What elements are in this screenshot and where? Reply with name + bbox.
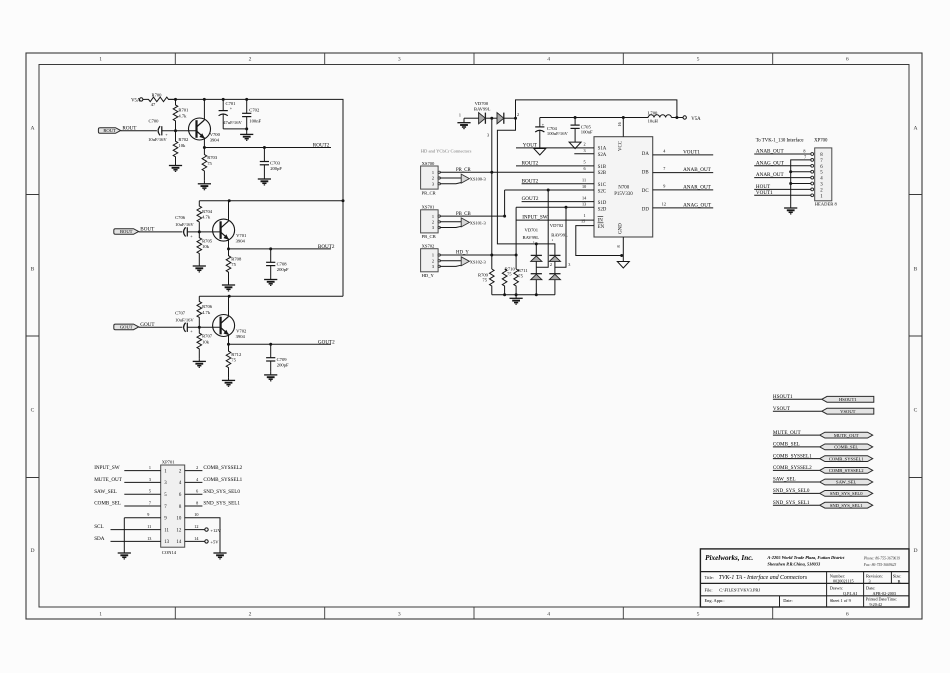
ground clamp bus	[510, 295, 523, 304]
svg-text:12: 12	[662, 201, 666, 206]
wire SND_SYS_SEL1	[773, 504, 820, 506]
wire PR_CR to S2B pin6	[440, 171, 595, 173]
svg-text:APR-02-2003: APR-02-2003	[873, 591, 897, 596]
svg-text:EN: EN	[598, 225, 605, 230]
svg-text:ROUT2: ROUT2	[313, 143, 330, 149]
capacitor C709 200pF	[266, 344, 289, 372]
svg-text:SAW_SEL: SAW_SEL	[773, 477, 796, 483]
svg-text:GND: GND	[619, 223, 624, 234]
svg-text:BOUT2: BOUT2	[318, 244, 335, 250]
junction PB_CB R710	[503, 215, 506, 218]
svg-text:4: 4	[547, 611, 550, 617]
capacitor C704 100uF/16V	[535, 118, 568, 149]
junction C703 tap	[263, 146, 266, 149]
svg-text:VSOUT: VSOUT	[840, 409, 856, 414]
title block text	[705, 554, 902, 607]
svg-text:PR_CR: PR_CR	[422, 190, 437, 195]
junction node base V701	[198, 230, 201, 233]
port BOUT	[114, 229, 139, 235]
svg-text:R702: R702	[178, 137, 189, 142]
shield arrow XS101-3	[461, 218, 469, 227]
diode VD700a	[479, 113, 486, 124]
svg-text:N700: N700	[618, 186, 629, 191]
svg-text:+12V: +12V	[210, 528, 221, 533]
svg-text:COMB_SYSSEL2: COMB_SYSSEL2	[203, 465, 242, 471]
svg-text:CON14: CON14	[162, 550, 177, 555]
svg-text:ANAG_OUT: ANAG_OUT	[756, 160, 785, 166]
wire CON14 pin12 to +12V	[185, 529, 205, 531]
diode VD701a	[531, 255, 542, 261]
wire V701 emitter	[228, 239, 230, 249]
resistor R702 10k	[173, 131, 189, 163]
wire V5A rail circuit3	[199, 295, 343, 297]
svg-text:2: 2	[432, 176, 434, 181]
wire base V700	[176, 130, 197, 132]
svg-text:SND_SYS_SEL0: SND_SYS_SEL0	[830, 491, 863, 496]
svg-text:75: 75	[207, 161, 212, 166]
svg-text:SAW_SEL: SAW_SEL	[94, 489, 117, 495]
svg-text:Phone: 86-755-3679619: Phone: 86-755-3679619	[863, 557, 900, 561]
svg-text:SND_SYS_SEL1: SND_SYS_SEL1	[203, 501, 240, 507]
svg-text:BOUT: BOUT	[120, 229, 133, 234]
svg-text:XP701: XP701	[162, 460, 175, 465]
svg-text:75: 75	[518, 273, 523, 278]
svg-text:BOUT2: BOUT2	[522, 178, 539, 184]
wire termination bus	[492, 294, 555, 296]
wire YOUT to S1A	[516, 147, 594, 149]
svg-text:16: 16	[617, 122, 622, 126]
svg-text:ANAR_OUT: ANAR_OUT	[683, 185, 712, 191]
svg-text:S2B: S2B	[598, 171, 607, 176]
svg-text:75: 75	[507, 272, 512, 277]
svg-text:2: 2	[432, 258, 434, 263]
svg-text:5: 5	[149, 489, 151, 494]
wire CON14 pin10 ground drop	[185, 518, 220, 552]
connector XS701 (PB_CB)	[421, 205, 441, 240]
ground under C708	[264, 277, 277, 286]
ground under C703	[258, 176, 271, 185]
wire CON14 pin8	[185, 505, 203, 507]
wire VD702 mid	[554, 261, 556, 273]
svg-text:4.7k: 4.7k	[202, 310, 211, 315]
capacitor C702 100nF	[242, 99, 261, 128]
connector XS702 (HD_Y)	[421, 244, 441, 279]
svg-text:10k: 10k	[202, 340, 210, 345]
svg-text:VOUT1: VOUT1	[683, 150, 700, 156]
svg-text:R705: R705	[202, 238, 213, 243]
svg-text:5: 5	[697, 57, 700, 63]
wire XS702 pin3	[440, 265, 462, 266]
junction rail C705	[574, 116, 577, 119]
capacitor C705 100nF	[571, 118, 593, 143]
svg-text:S1C: S1C	[598, 183, 606, 188]
diode VD702b	[549, 274, 560, 280]
svg-text:2: 2	[517, 112, 519, 117]
wire ANAB_OUT from IC	[653, 172, 714, 174]
wire XS700 pin2	[440, 177, 462, 179]
wire C701 C702 bottoms	[223, 128, 247, 130]
svg-text:TVK-1 TA - Interface and Conne: TVK-1 TA - Interface and Connectors	[719, 574, 808, 581]
svg-text:ROUT: ROUT	[103, 128, 116, 133]
junction bus pin5	[789, 170, 792, 173]
wire VCC rail	[540, 117, 648, 119]
wire COMB_SEL	[773, 446, 820, 448]
svg-text:C: C	[914, 408, 918, 414]
resistor R711 75	[514, 268, 529, 295]
svg-text:XS101-3: XS101-3	[470, 220, 487, 225]
svg-text:Date:: Date:	[783, 598, 793, 603]
svg-text:6: 6	[846, 57, 849, 63]
junction node base V700	[174, 129, 177, 132]
svg-text:C707: C707	[175, 310, 186, 315]
svg-text:200pF: 200pF	[277, 363, 289, 368]
svg-text:Eng. Appr.:: Eng. Appr.:	[705, 598, 725, 603]
junction S2D clamp	[565, 206, 568, 209]
svg-text:Q.P.LAI: Q.P.LAI	[843, 591, 858, 596]
wire XP700 bus pin5	[791, 171, 811, 173]
resistor R700 47	[146, 93, 176, 108]
port SND_SYS_SEL1	[820, 502, 873, 508]
svg-text:R700: R700	[152, 93, 163, 98]
ground under C702	[240, 129, 253, 140]
wire XS700 pin3	[440, 183, 462, 184]
port VSOUT	[822, 408, 874, 414]
port COMB_SEL	[820, 444, 873, 450]
svg-text:SND_SYS_SEL1: SND_SYS_SEL1	[830, 503, 863, 508]
svg-text:13: 13	[147, 536, 151, 541]
diode VD702a	[549, 255, 560, 261]
svg-text:1: 1	[432, 253, 434, 258]
resistor R704 4.7k	[197, 201, 213, 232]
inner border frame	[39, 65, 909, 608]
svg-text:COMB_SYSSEL1: COMB_SYSSEL1	[203, 477, 242, 483]
svg-text:DC: DC	[642, 189, 649, 194]
svg-text:3: 3	[869, 579, 871, 584]
svg-text:B: B	[898, 579, 901, 584]
svg-text:4: 4	[547, 57, 550, 63]
svg-text:ANAB_OUT: ANAB_OUT	[683, 167, 712, 173]
wire VD701 mid to S2C	[536, 190, 548, 267]
svg-text:2: 2	[432, 220, 434, 225]
svg-text:VD701: VD701	[525, 228, 539, 233]
svg-text:R712: R712	[231, 352, 242, 357]
junction bus VD701	[535, 293, 538, 296]
wire BOUT2 output	[229, 248, 332, 250]
junction node2	[514, 117, 517, 120]
wire XS701 pin2	[440, 221, 462, 223]
port ROUT	[98, 128, 120, 134]
svg-text:1: 1	[584, 213, 586, 218]
power terminal +12V	[205, 528, 208, 531]
capacitor C700 10uF/16V	[121, 118, 176, 141]
wire node2 up-over to V5A	[516, 100, 677, 118]
ground under R707	[193, 358, 206, 367]
svg-text:GOUT2: GOUT2	[318, 339, 335, 345]
svg-text:INPUT_SW: INPUT_SW	[522, 215, 548, 221]
wire CON14 pin13	[111, 540, 161, 542]
svg-text:47uF/16V: 47uF/16V	[223, 120, 242, 125]
svg-text:1: 1	[99, 611, 102, 617]
svg-text:COMB_SYSSEL1: COMB_SYSSEL1	[773, 453, 812, 459]
wire VD701 bottom lead	[535, 280, 537, 295]
svg-text:100nF: 100nF	[249, 118, 261, 123]
junction emitter node 3	[227, 343, 230, 346]
svg-text:HEADER 8: HEADER 8	[815, 202, 838, 207]
svg-text:7: 7	[149, 500, 151, 505]
svg-text:11: 11	[164, 528, 169, 533]
svg-text:10k: 10k	[178, 143, 186, 148]
wire ROUT2 output	[204, 147, 331, 149]
ground under R702	[169, 163, 182, 172]
wire V5A to R700	[143, 98, 146, 100]
port COMB_SYSSEL2	[820, 468, 873, 474]
svg-text:L700: L700	[648, 111, 658, 116]
junction rail C702	[245, 98, 248, 101]
port HSOUT1	[822, 396, 874, 402]
svg-text:BAV99L: BAV99L	[474, 106, 491, 111]
ground under R703	[198, 181, 211, 190]
svg-text:6: 6	[196, 489, 198, 494]
transistor V700 3904	[189, 118, 221, 143]
svg-text:Printed Date/Time:: Printed Date/Time:	[866, 597, 897, 602]
svg-text:S1D: S1D	[598, 201, 607, 206]
port MUTE_OUT	[820, 432, 873, 438]
svg-text:DD: DD	[642, 208, 650, 213]
svg-text:8: 8	[196, 500, 198, 505]
svg-text:12: 12	[176, 528, 181, 533]
inductor L700 10uH	[648, 111, 672, 124]
border zone labels	[30, 57, 917, 618]
svg-text:9: 9	[663, 183, 665, 188]
svg-text:Title:: Title:	[705, 575, 714, 580]
svg-text:100uF/16V: 100uF/16V	[547, 131, 569, 136]
junction C709 tap	[269, 343, 272, 346]
svg-text:DB: DB	[642, 171, 650, 176]
svg-text:10: 10	[194, 512, 198, 517]
wire CON14 pin6	[185, 493, 203, 495]
svg-text:Date:: Date:	[866, 585, 876, 590]
svg-text:COMB_SEL: COMB_SEL	[94, 501, 121, 507]
wire VOUT1 from IC	[653, 154, 714, 156]
svg-text:Sheet 1 of 9: Sheet 1 of 9	[830, 598, 852, 603]
wire XP700 ground bus	[791, 160, 811, 207]
title block grid	[700, 549, 909, 607]
op-amp U1 N700 P15V330 body	[594, 137, 653, 237]
svg-text:A: A	[913, 126, 917, 132]
resistor R712 75	[226, 344, 242, 377]
connector XS700 (PR_CR)	[421, 161, 441, 196]
svg-text:0020021115: 0020021115	[833, 579, 854, 584]
svg-text:1: 1	[149, 465, 151, 470]
svg-text:COMB_SEL: COMB_SEL	[834, 445, 858, 450]
wire VD701 top lead	[535, 244, 537, 256]
svg-text:XP700: XP700	[814, 139, 828, 144]
svg-text:3904: 3904	[236, 334, 246, 339]
wire VD700 mid	[485, 117, 497, 119]
svg-text:200pF: 200pF	[270, 166, 282, 171]
svg-text:C701: C701	[226, 101, 237, 106]
svg-text:10uF/16V: 10uF/16V	[148, 137, 167, 142]
wire node2 to clamp-top rail	[497, 118, 516, 244]
svg-text:C706: C706	[175, 215, 186, 220]
svg-text:3: 3	[398, 57, 401, 63]
svg-text:MUTE_OUT: MUTE_OUT	[773, 430, 802, 436]
svg-text:BAV99L: BAV99L	[523, 235, 540, 240]
diode VD700b	[497, 113, 504, 124]
svg-text:C709: C709	[277, 357, 288, 362]
junction HD_Y R711	[515, 254, 518, 257]
svg-text:To TVK-1_130 Interface: To TVK-1_130 Interface	[756, 139, 804, 144]
svg-text:DA: DA	[642, 152, 650, 157]
svg-text:R704: R704	[202, 209, 213, 214]
wire SND_SYS_SEL0	[773, 492, 820, 494]
wire HD_Y to clamp	[440, 254, 517, 256]
svg-text:2: 2	[249, 57, 252, 63]
svg-text:Pixelworks, Inc.: Pixelworks, Inc.	[705, 554, 753, 562]
svg-text:1: 1	[99, 57, 102, 63]
svg-text:HSOUT1: HSOUT1	[773, 394, 793, 400]
svg-text:D: D	[913, 548, 917, 554]
svg-text:Fax: 86-755-3669623: Fax: 86-755-3669623	[863, 563, 897, 567]
svg-text:B: B	[914, 267, 918, 273]
junction bus R711	[515, 293, 518, 296]
wire ANAB_OUT to XP700	[754, 153, 811, 155]
ground at VD700 pin1	[457, 118, 470, 128]
wire ANAR_OUT from IC	[653, 189, 714, 191]
svg-text:2: 2	[249, 611, 252, 617]
svg-text:D: D	[30, 548, 34, 554]
svg-text:ANAG_OUT: ANAG_OUT	[683, 203, 712, 209]
svg-text:3904: 3904	[236, 239, 246, 244]
svg-text:10: 10	[176, 517, 181, 522]
wire CON14 pin4	[185, 481, 203, 483]
svg-text:B: B	[31, 267, 35, 273]
svg-text:COMB_SYSSEL2: COMB_SYSSEL2	[773, 465, 812, 471]
wire MUTE_OUT	[773, 434, 820, 436]
svg-text:1: 1	[533, 240, 535, 244]
capacitor C707 10uF/16V	[139, 310, 200, 333]
svg-text:XS702: XS702	[422, 244, 435, 249]
svg-text:5: 5	[697, 611, 700, 617]
svg-text:XS700: XS700	[422, 161, 435, 166]
wire SAW_SEL	[773, 481, 820, 483]
svg-text:4.7k: 4.7k	[202, 215, 211, 220]
svg-text:ROUT2: ROUT2	[522, 161, 539, 167]
svg-text:R701: R701	[178, 108, 189, 113]
svg-text:9: 9	[147, 512, 149, 517]
svg-text:S2D: S2D	[598, 207, 607, 212]
svg-text:A-2205 World Trade Plaza, Futi: A-2205 World Trade Plaza, Futian Distric…	[766, 555, 845, 560]
junction rail VCC pin	[622, 116, 625, 119]
connector CON14 pin numbers	[164, 469, 182, 545]
svg-text:+5V: +5V	[210, 540, 219, 545]
svg-text:12: 12	[194, 524, 198, 529]
wire EN loop	[576, 226, 622, 256]
svg-text:9:20:42: 9:20:42	[870, 602, 883, 607]
svg-text:3: 3	[432, 225, 434, 230]
wire CON14 pin11	[111, 529, 161, 531]
svg-text:14: 14	[176, 540, 181, 545]
wire ROUT2 to S1B	[516, 165, 594, 167]
junction C708 tap	[269, 247, 272, 250]
svg-text:2: 2	[196, 465, 198, 470]
junction HD_Y R709 line	[490, 254, 493, 257]
outer border frame	[26, 53, 922, 619]
svg-text:3: 3	[568, 262, 570, 267]
svg-text:YOUT: YOUT	[523, 143, 538, 149]
wire COMB_SYSSEL2	[773, 469, 820, 471]
power terminal V5A mid	[683, 116, 686, 119]
svg-text:HSOUT1: HSOUT1	[839, 397, 857, 402]
wire VD702 mid to S2D	[555, 207, 566, 267]
junction S2C clamp	[547, 189, 550, 192]
junction rail2 collector	[228, 199, 231, 202]
svg-text:ANAB_OUT: ANAB_OUT	[756, 149, 785, 155]
svg-text:10k: 10k	[202, 244, 210, 249]
transistor V701 3904	[213, 219, 247, 244]
svg-text:S2A: S2A	[598, 153, 607, 158]
svg-text:3: 3	[149, 477, 151, 482]
border zone tick marks	[26, 53, 922, 619]
svg-text:4.7k: 4.7k	[178, 114, 187, 119]
svg-text:1: 1	[432, 170, 434, 175]
wire CON14 pin5	[124, 493, 160, 495]
port GOUT	[114, 324, 139, 330]
junction bus pin3	[789, 182, 792, 185]
svg-text:R706: R706	[202, 304, 213, 309]
resistor R701 4.7k	[173, 99, 189, 130]
svg-text:200pF: 200pF	[277, 267, 289, 272]
svg-text:XS102-3: XS102-3	[470, 259, 487, 264]
wire S2D segment	[516, 206, 594, 208]
connector XP700 pin numbers	[820, 153, 823, 199]
ground CON14 right	[213, 552, 226, 559]
svg-text:1: 1	[459, 113, 461, 118]
wire CON14 pin7	[124, 505, 160, 507]
wire GOUT2 to S1D	[522, 201, 594, 203]
svg-text:XS100-3: XS100-3	[470, 177, 487, 182]
svg-text:COMB_SEL: COMB_SEL	[773, 442, 800, 448]
wire HOUT to XP700	[754, 188, 811, 190]
svg-text:VCC: VCC	[619, 141, 624, 151]
svg-text:A: A	[30, 126, 34, 132]
svg-text:BAV99L: BAV99L	[551, 232, 568, 237]
svg-text:47: 47	[151, 102, 156, 107]
svg-text:SDA: SDA	[94, 536, 105, 542]
svg-text:15: 15	[581, 219, 585, 224]
svg-text:SND_SYS_SEL0: SND_SYS_SEL0	[203, 489, 240, 495]
junction rail2 V5A feed	[342, 199, 345, 202]
svg-text:3: 3	[398, 611, 401, 617]
wire V701 collector	[228, 201, 230, 221]
svg-text:V701: V701	[236, 233, 247, 238]
svg-text:V5A: V5A	[691, 117, 701, 122]
ground XP700 bus	[784, 207, 797, 214]
resistor R708 75	[226, 249, 242, 282]
svg-text:3: 3	[487, 133, 489, 138]
ground triangle C704	[534, 149, 546, 156]
ground under R708	[222, 282, 235, 291]
svg-text:11: 11	[582, 178, 586, 183]
svg-text:13: 13	[164, 540, 169, 545]
wire XP700 bus pin3	[791, 183, 811, 185]
wire V702 collector	[228, 296, 230, 316]
wire COMB_SYSSEL1	[773, 458, 820, 460]
wire ANAG_OUT to XP700	[754, 165, 811, 167]
junction EN GND	[620, 254, 623, 257]
connector XP700 pin circles	[811, 153, 814, 197]
svg-text:R707: R707	[202, 334, 213, 339]
